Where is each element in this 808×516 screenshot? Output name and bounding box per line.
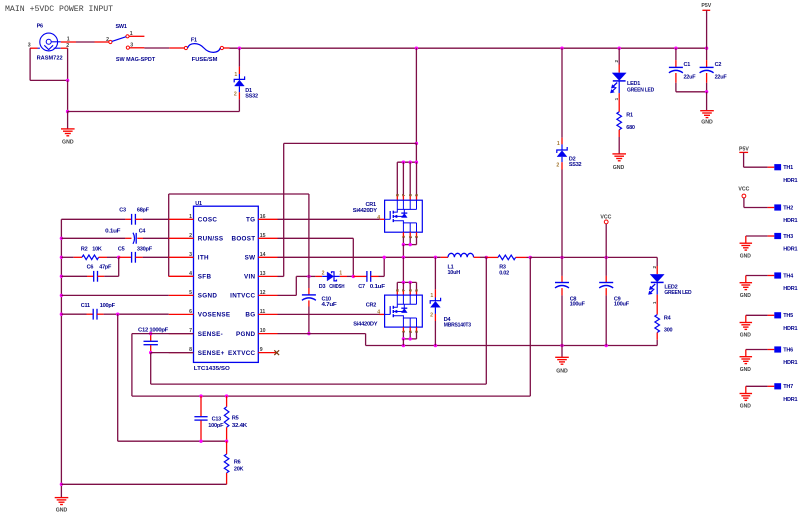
P6 pin 3 stub — [28, 43, 38, 49]
wire SW node row — [278, 256, 441, 258]
svg-text:6: 6 — [189, 309, 192, 315]
wire C1-C2 bottom link — [676, 91, 707, 93]
svg-text:HDR1: HDR1 — [783, 326, 797, 332]
svg-text:COSC: COSC — [198, 217, 218, 224]
svg-text:3: 3 — [414, 330, 419, 333]
capacitor C4 0.1uF RUN/SS — [61, 229, 168, 244]
svg-text:TH5: TH5 — [783, 313, 793, 319]
junction CR1 drain bus dots — [402, 161, 418, 164]
svg-text:47pF: 47pF — [99, 265, 112, 271]
P6 pin 2 stub — [61, 43, 70, 49]
junction out bus at C9/VCC — [605, 256, 608, 259]
svg-text:7: 7 — [401, 289, 406, 292]
svg-text:VOSENSE: VOSENSE — [198, 312, 231, 319]
U1 pin14 SW stub — [383, 256, 488, 260]
wire INTVCC jog U1 pin12 — [278, 276, 309, 295]
header TH4 to GND — [740, 272, 798, 298]
header TH6 to GND — [740, 346, 798, 372]
svg-text:P5V: P5V — [701, 3, 711, 9]
wire SENSE- net — [132, 257, 530, 396]
svg-text:SW MAG-SPDT: SW MAG-SPDT — [116, 57, 156, 63]
svg-text:C5: C5 — [118, 247, 125, 253]
svg-text:R5: R5 — [232, 416, 239, 422]
wire power ground bus — [366, 345, 658, 347]
junction gnd bus at C9 — [605, 344, 608, 347]
svg-text:0.02: 0.02 — [499, 270, 509, 276]
svg-text:1: 1 — [339, 270, 342, 276]
svg-text:11: 11 — [260, 309, 266, 315]
wire P6 pin3 loop down — [30, 48, 68, 80]
svg-text:Si4420DY: Si4420DY — [353, 208, 378, 214]
svg-text:6: 6 — [408, 289, 413, 292]
svg-text:2: 2 — [322, 270, 325, 276]
resistor R2 10K ITH — [61, 246, 118, 259]
svg-text:RASM722: RASM722 — [37, 56, 63, 62]
header TH7 to GND — [740, 383, 798, 409]
wire SENSE+ net — [151, 257, 487, 384]
junction C11/feedback divider — [116, 313, 119, 316]
svg-text:100pF: 100pF — [100, 303, 116, 309]
svg-text:6: 6 — [408, 194, 413, 197]
svg-text:4.7uF: 4.7uF — [322, 302, 338, 308]
svg-text:U1: U1 — [195, 201, 202, 207]
junction gnd bus at CR2 — [402, 344, 405, 347]
ground GND bottom left — [55, 498, 69, 514]
svg-text:R2: R2 — [81, 246, 88, 252]
svg-text:SENSE-: SENSE- — [198, 331, 223, 338]
svg-text:INTVCC: INTVCC — [230, 293, 255, 300]
svg-text:4: 4 — [189, 271, 192, 277]
svg-text:SGND: SGND — [198, 293, 218, 300]
svg-text:TH4: TH4 — [783, 273, 794, 279]
CR2 source pins 1 2 3 to ground bus — [401, 327, 419, 345]
svg-text:C6: C6 — [87, 265, 94, 271]
svg-text:SS32: SS32 — [569, 162, 582, 168]
capacitor C9 100uF — [599, 257, 630, 345]
wire output bus to LED2 — [530, 256, 657, 258]
svg-text:SFB: SFB — [198, 274, 212, 281]
transistor CR1 Si4420DY — [353, 200, 423, 232]
svg-text:HDR1: HDR1 — [783, 247, 797, 253]
LED2 GREEN LED — [648, 257, 691, 314]
svg-text:VCC: VCC — [600, 214, 611, 220]
svg-text:5: 5 — [414, 289, 419, 292]
svg-text:C3: C3 — [119, 208, 126, 214]
junction bus at C2/P5V — [705, 47, 708, 50]
diode D2 SS32 — [556, 48, 581, 257]
svg-text:HDR1: HDR1 — [783, 178, 797, 184]
wire SW1 pin3 to F1 — [144, 47, 169, 49]
capacitor C3 68pF COSC — [61, 208, 168, 225]
SW1 pin3 stub — [130, 47, 145, 49]
svg-text:RUN/SS: RUN/SS — [198, 236, 224, 243]
svg-text:LED1: LED1 — [627, 81, 640, 87]
svg-text:GREEN LED: GREEN LED — [664, 290, 691, 296]
wire CR2 drain bus — [397, 281, 416, 283]
svg-text:16: 16 — [260, 214, 266, 220]
svg-text:3: 3 — [189, 252, 192, 258]
svg-text:100uF: 100uF — [614, 302, 630, 308]
svg-text:0.1uF: 0.1uF — [105, 229, 121, 235]
svg-text:13: 13 — [260, 271, 266, 277]
svg-text:1: 1 — [614, 97, 619, 100]
wire CR1 drain bus — [397, 161, 416, 163]
wire riser to CR1 drain bus — [415, 143, 417, 162]
svg-text:10: 10 — [260, 328, 266, 334]
junction CR2 drain dots — [402, 281, 412, 284]
svg-text:2: 2 — [234, 92, 237, 98]
svg-text:680: 680 — [626, 125, 635, 131]
svg-text:SW: SW — [245, 255, 256, 262]
transistor CR2 Si4420DY — [353, 295, 422, 327]
resistor R1 680 — [617, 112, 635, 154]
junction gnd bus at D4 — [434, 344, 437, 347]
junction INTVCC/SFB/D3/C10 node — [307, 275, 310, 278]
svg-text:7: 7 — [401, 194, 406, 197]
svg-text:BOOST: BOOST — [232, 236, 256, 243]
capacitor C1 22uF — [669, 48, 696, 92]
svg-text:BG: BG — [245, 312, 255, 319]
capacitor C2 22uF — [700, 48, 728, 92]
junction left bus dots — [60, 237, 63, 486]
junction bus at CR1 riser — [415, 47, 418, 50]
svg-text:4: 4 — [377, 215, 380, 221]
svg-text:HDR1: HDR1 — [783, 397, 797, 403]
header TH1 to P5V — [739, 147, 797, 184]
svg-text:ITH: ITH — [198, 255, 209, 262]
svg-text:GND: GND — [740, 333, 752, 339]
svg-text:TG: TG — [246, 217, 255, 224]
svg-text:GND: GND — [556, 368, 568, 374]
op-amp U1 LTC1435/SO controller — [169, 201, 278, 372]
svg-text:C7: C7 — [358, 284, 365, 290]
svg-text:HDR1: HDR1 — [783, 286, 797, 292]
capacitor C13 100pF — [194, 396, 224, 441]
svg-text:VIN: VIN — [244, 274, 256, 281]
svg-text:MBRS140T3: MBRS140T3 — [444, 323, 471, 329]
svg-text:12: 12 — [260, 290, 266, 296]
junction R3 out / SENSE- — [529, 256, 532, 259]
capacitor C6 47pF — [61, 257, 118, 281]
svg-text:8: 8 — [395, 194, 400, 197]
P6 pin 1 stub — [61, 37, 76, 43]
svg-text:22uF: 22uF — [684, 75, 697, 81]
svg-text:GND: GND — [740, 404, 752, 410]
svg-text:C11: C11 — [81, 303, 90, 309]
no-connect X on EXTVCC pin 9 — [274, 350, 279, 355]
svg-text:P6: P6 — [37, 24, 43, 30]
diode D4 MBRS140T3 — [430, 257, 471, 345]
svg-text:3: 3 — [414, 235, 419, 238]
wire BOOST U1 pin15 to D3/C7 node — [278, 238, 354, 276]
resistor R6 20K — [61, 441, 243, 484]
wire main +5V input bus — [230, 47, 707, 49]
junction C10/PGND — [307, 332, 310, 335]
junction gnd bus at C8 — [560, 344, 563, 347]
header TH3 to GND — [740, 233, 798, 259]
svg-text:100uF: 100uF — [570, 302, 586, 308]
capacitor C10 4.7uF — [302, 276, 338, 333]
svg-text:22uF: 22uF — [715, 75, 728, 81]
ground GND under P6 — [61, 112, 75, 146]
svg-text:2: 2 — [189, 233, 192, 239]
svg-text:GND: GND — [62, 140, 74, 146]
svg-text:SS32: SS32 — [245, 93, 258, 99]
wire PGND U1 pin10 to power ground bus — [278, 334, 366, 346]
svg-text:VCC: VCC — [738, 187, 749, 193]
svg-text:2: 2 — [408, 235, 413, 238]
fuse F1 FUSE/SM — [169, 37, 229, 63]
CR1 drain pin drops pins 8 7 6 5 — [395, 162, 419, 200]
junction P6 ground loop — [66, 79, 69, 82]
svg-text:SW1: SW1 — [116, 24, 127, 30]
svg-text:32.4K: 32.4K — [232, 423, 247, 429]
svg-text:1: 1 — [557, 141, 560, 147]
svg-text:1: 1 — [401, 330, 406, 333]
svg-text:GND: GND — [56, 508, 68, 514]
svg-text:4: 4 — [377, 310, 380, 316]
junction bus at D1 — [238, 47, 241, 50]
svg-text:GND: GND — [740, 253, 752, 259]
wire ground node to D1 anode — [68, 111, 240, 113]
svg-text:P5V: P5V — [739, 147, 749, 153]
power VCC tap on output — [600, 214, 611, 257]
svg-text:R1: R1 — [626, 112, 633, 118]
wire SFB loop U1 pin4 — [169, 194, 309, 276]
diode D3 CMDSH — [309, 270, 353, 290]
svg-text:TH6: TH6 — [783, 347, 793, 353]
svg-text:D3: D3 — [319, 284, 326, 290]
capacitor C11 100pF VOSENSE — [61, 303, 168, 320]
capacitor C7 0.1uF — [353, 257, 386, 290]
svg-text:15: 15 — [260, 233, 266, 239]
svg-text:20K: 20K — [234, 467, 244, 473]
svg-text:Si4420DY: Si4420DY — [353, 321, 378, 327]
svg-text:9: 9 — [260, 347, 263, 353]
svg-text:10uH: 10uH — [448, 270, 461, 276]
junction VIN tap — [415, 142, 418, 145]
ground GND under R1 — [612, 154, 626, 171]
ground GND at output — [555, 346, 569, 375]
svg-text:C1: C1 — [684, 62, 691, 68]
svg-text:C13: C13 — [212, 416, 222, 422]
junction out bus at C8/D2 — [560, 256, 563, 259]
power P5V top — [701, 3, 711, 48]
svg-text:1: 1 — [189, 214, 192, 220]
svg-text:3: 3 — [28, 43, 31, 49]
wire VOSENSE down to divider — [118, 314, 227, 441]
svg-text:LTC1435/SO: LTC1435/SO — [194, 366, 231, 372]
junction SENSE- at C12 — [149, 332, 152, 335]
svg-text:2: 2 — [106, 37, 109, 43]
wire P6 pin2 down — [67, 48, 69, 80]
capacitor C5 330pF — [118, 247, 169, 263]
svg-text:2: 2 — [408, 330, 413, 333]
svg-text:PGND: PGND — [236, 331, 256, 338]
svg-text:100pF: 100pF — [208, 423, 224, 429]
svg-text:TH1: TH1 — [783, 165, 793, 171]
svg-text:2: 2 — [66, 43, 69, 49]
svg-text:GND: GND — [701, 120, 713, 126]
svg-text:1: 1 — [430, 293, 433, 299]
svg-text:1: 1 — [67, 37, 70, 43]
svg-text:EXTVCC: EXTVCC — [228, 350, 255, 357]
header TH5 to GND — [740, 312, 798, 338]
svg-text:GND: GND — [740, 367, 752, 373]
junction bus at C1 — [674, 47, 677, 50]
svg-text:GND: GND — [613, 165, 625, 171]
wire P6 pin1 to SW1 pin2 — [76, 41, 109, 43]
junction bus at LED1 — [618, 47, 621, 50]
svg-text:2: 2 — [556, 163, 559, 169]
LED1 GREEN LED — [610, 48, 654, 112]
wire SGND U1 pin5 — [61, 294, 168, 296]
svg-text:C2: C2 — [715, 62, 722, 68]
CR1 source pins 1 2 3 to SW node — [401, 232, 419, 257]
svg-text:GREEN LED: GREEN LED — [627, 88, 654, 94]
svg-text:68pF: 68pF — [137, 208, 150, 214]
svg-text:CR2: CR2 — [366, 303, 376, 309]
svg-text:300: 300 — [664, 328, 673, 334]
inductor L1 10uH — [441, 253, 487, 276]
svg-text:1: 1 — [652, 301, 657, 304]
svg-text:TH3: TH3 — [783, 234, 793, 240]
svg-text:HDR1: HDR1 — [783, 360, 797, 366]
svg-text:FUSE/SM: FUSE/SM — [192, 57, 218, 63]
SW1 pin1 dead-end stub — [129, 35, 144, 37]
ground GND under C2 — [700, 92, 714, 126]
junction bus at D2 — [560, 47, 563, 50]
junction R2/C5/C6 — [117, 256, 120, 259]
svg-text:CMDSH: CMDSH — [329, 284, 344, 290]
CR2 drain pin drops pins 8 7 6 5 — [395, 282, 419, 295]
junction C2 gnd — [705, 90, 708, 93]
svg-text:14: 14 — [260, 252, 266, 258]
svg-text:2: 2 — [614, 60, 619, 63]
svg-text:SENSE+: SENSE+ — [198, 350, 225, 357]
svg-text:1: 1 — [401, 235, 406, 238]
CR2 drain riser from SW node — [402, 257, 404, 282]
svg-text:GND: GND — [740, 293, 752, 299]
wire VIN feed to U1 pin13 — [278, 143, 417, 276]
resistor R5 32.4K — [224, 396, 247, 441]
svg-text:0.1uF: 0.1uF — [370, 284, 386, 290]
svg-text:F1: F1 — [191, 37, 197, 43]
title MAIN +5VDC POWER INPUT — [5, 5, 113, 14]
junction divider mid — [199, 440, 228, 443]
junction input ground node — [66, 110, 69, 113]
capacitor C8 100uF — [555, 257, 586, 345]
svg-text:R6: R6 — [234, 459, 241, 465]
svg-text:1: 1 — [234, 72, 237, 78]
resistor R4 300 — [655, 315, 673, 346]
svg-text:2: 2 — [430, 312, 433, 318]
wire BG U1 pin11 to CR2 gate — [278, 313, 385, 315]
junction SENSE+ at C12 — [149, 351, 152, 354]
wire CR1/VIN riser from bus — [415, 48, 417, 143]
junction BOOST/D3/C7 — [352, 275, 355, 278]
svg-text:HDR1: HDR1 — [783, 218, 797, 224]
diode D1 SS32 — [234, 48, 258, 111]
wire down to GND junction — [67, 80, 69, 111]
svg-text:330pF: 330pF — [137, 247, 153, 253]
svg-text:10K: 10K — [92, 246, 102, 252]
header TH2 to VCC — [738, 187, 797, 225]
svg-text:8: 8 — [395, 289, 400, 292]
svg-text:5: 5 — [414, 194, 419, 197]
svg-text:2: 2 — [652, 266, 657, 269]
capacitor C12 1000pF — [138, 327, 169, 352]
svg-text:5: 5 — [189, 290, 192, 296]
switch SW1 SW MAG-SPDT — [106, 24, 156, 63]
svg-text:MAIN +5VDC POWER INPUT: MAIN +5VDC POWER INPUT — [5, 5, 113, 14]
svg-text:TH2: TH2 — [783, 205, 793, 211]
svg-text:C12 1000pF: C12 1000pF — [138, 327, 169, 333]
wire left bus vertical — [60, 219, 62, 497]
resistor R3 0.02 sense — [486, 255, 530, 276]
wire TG U1 pin16 to CR1 gate — [278, 218, 385, 220]
svg-text:TH7: TH7 — [783, 384, 793, 390]
junction divider taps on SENSE- line — [199, 394, 228, 397]
connector P6 RASM722 barrel jack — [37, 24, 63, 62]
